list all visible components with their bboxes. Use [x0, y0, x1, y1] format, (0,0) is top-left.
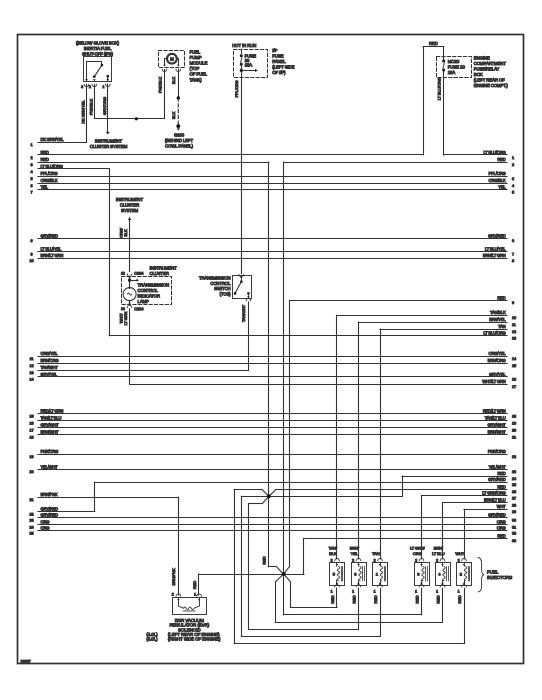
svg-text:FUEL: FUEL [487, 569, 499, 574]
svg-text:BLK: BLK [329, 551, 337, 556]
svg-text:BRN/ORG: BRN/ORG [488, 358, 506, 363]
svg-text:ENGINE: ENGINE [474, 56, 490, 61]
svg-text:TAN/WHT: TAN/WHT [41, 365, 59, 370]
svg-text:2: 2 [172, 593, 174, 597]
svg-text:18: 18 [29, 435, 33, 439]
svg-text:LT BLU/ORG: LT BLU/ORG [483, 331, 505, 336]
svg-text:(TOP: (TOP [190, 66, 200, 71]
svg-text:1: 1 [376, 572, 379, 577]
svg-text:11: 11 [30, 357, 34, 361]
svg-text:15A: 15A [245, 63, 253, 68]
svg-text:HOT IN RUN: HOT IN RUN [232, 43, 256, 48]
svg-text:20: 20 [29, 470, 33, 474]
svg-text:DK GRN/YEL: DK GRN/YEL [41, 137, 65, 142]
svg-text:18: 18 [512, 415, 516, 419]
svg-text:(TCS): (TCS) [220, 292, 232, 297]
svg-text:LT GRN/ORG: LT GRN/ORG [482, 491, 505, 496]
svg-text:RED: RED [497, 533, 505, 538]
svg-text:2: 2 [436, 558, 438, 562]
svg-text:1: 1 [512, 156, 514, 160]
svg-text:TANK): TANK) [190, 77, 203, 82]
svg-text:12: 12 [29, 364, 33, 368]
svg-text:BRN/ORG: BRN/ORG [41, 358, 59, 363]
svg-text:28: 28 [512, 503, 516, 507]
svg-text:DK GRN/YEL: DK GRN/YEL [81, 100, 86, 124]
svg-text:TAN/LT BLU: TAN/LT BLU [41, 416, 62, 421]
svg-text:24: 24 [512, 477, 516, 481]
svg-text:GRY/YEL: GRY/YEL [41, 372, 58, 377]
svg-text:29: 29 [512, 510, 516, 514]
svg-text:ENGINE COMPT.): ENGINE COMPT.) [474, 83, 509, 88]
svg-text:8: 8 [30, 239, 32, 243]
svg-text:12: 12 [121, 271, 125, 275]
svg-text:PANEL: PANEL [272, 59, 286, 64]
svg-text:BRN/WHT: BRN/WHT [488, 430, 507, 435]
svg-text:9: 9 [30, 252, 32, 256]
svg-text:ORG/BLK: ORG/BLK [41, 178, 58, 183]
svg-text:PPL/ORG: PPL/ORG [234, 80, 239, 97]
svg-text:1: 1 [436, 590, 438, 594]
svg-text:2: 2 [415, 558, 417, 562]
svg-text:INSTRUMENT: INSTRUMENT [116, 197, 144, 202]
svg-text:2: 2 [460, 572, 463, 577]
svg-text:LT GRN: LT GRN [123, 311, 128, 325]
svg-text:RED: RED [262, 556, 267, 564]
svg-text:(3.0L): (3.0L) [146, 637, 158, 642]
svg-text:PNK/BLK: PNK/BLK [88, 98, 93, 115]
svg-text:YEL/WHT: YEL/WHT [489, 464, 507, 469]
svg-text:7: 7 [512, 252, 514, 256]
svg-text:TAN/BLK: TAN/BLK [490, 310, 506, 315]
svg-text:LT GRN/: LT GRN/ [410, 546, 426, 551]
svg-text:BRN/: BRN/ [434, 546, 444, 551]
svg-text:1: 1 [102, 85, 104, 89]
svg-text:CLUSTER: CLUSTER [150, 271, 169, 276]
svg-text:ORG: ORG [41, 520, 50, 525]
svg-text:INSTRUMENT: INSTRUMENT [95, 139, 123, 144]
svg-text:31: 31 [512, 525, 516, 529]
svg-text:TAN/LT BLU: TAN/LT BLU [485, 416, 506, 421]
svg-text:LT BLU/ORG: LT BLU/ORG [41, 164, 63, 169]
svg-text:RED: RED [497, 157, 505, 162]
svg-text:M: M [170, 57, 174, 62]
svg-text:1: 1 [458, 590, 460, 594]
svg-text:YEL/WHT: YEL/WHT [41, 464, 59, 469]
svg-text:FUEL: FUEL [190, 50, 201, 55]
svg-text:25: 25 [29, 532, 33, 536]
svg-text:14: 14 [29, 378, 33, 382]
svg-text:OF FUEL: OF FUEL [190, 72, 208, 77]
svg-text:RED: RED [436, 595, 441, 603]
svg-text:RED: RED [415, 595, 420, 603]
svg-text:LT BLU: LT BLU [432, 551, 445, 556]
svg-text:2: 2 [89, 85, 91, 89]
svg-text:19: 19 [512, 422, 516, 426]
svg-text:MODULE: MODULE [190, 61, 208, 66]
svg-text:12: 12 [512, 330, 516, 334]
svg-text:14: 14 [512, 357, 516, 361]
svg-text:3: 3 [512, 177, 514, 181]
svg-text:(RIGHT SIDE OF ENGINE): (RIGHT SIDE OF ENGINE) [168, 637, 221, 642]
svg-text:COMPARTMENT: COMPARTMENT [474, 61, 507, 66]
svg-text:10: 10 [512, 316, 516, 320]
svg-text:RED: RED [497, 484, 505, 489]
svg-text:GRY/RED: GRY/RED [488, 477, 506, 482]
svg-text:RED: RED [352, 595, 357, 603]
svg-text:21: 21 [29, 498, 33, 502]
svg-text:15: 15 [512, 364, 516, 368]
svg-text:INDICATOR: INDICATOR [138, 294, 160, 299]
svg-text:LT BLU/ORG: LT BLU/ORG [483, 150, 505, 155]
svg-text:21: 21 [512, 435, 516, 439]
svg-text:11: 11 [512, 323, 516, 327]
svg-text:INERTIA FUEL: INERTIA FUEL [84, 46, 112, 51]
svg-text:3: 3 [81, 85, 83, 89]
svg-text:6: 6 [30, 184, 32, 188]
svg-text:GRY/WHT: GRY/WHT [488, 423, 507, 428]
svg-text:23: 23 [512, 470, 516, 474]
svg-text:MO23: MO23 [448, 59, 460, 64]
svg-text:LT BLU/YEL: LT BLU/YEL [485, 246, 506, 251]
svg-text:1: 1 [194, 593, 196, 597]
svg-text:2: 2 [352, 558, 354, 562]
svg-text:BOX: BOX [474, 72, 483, 77]
svg-text:GRY/RED: GRY/RED [41, 233, 59, 238]
svg-text:PNK/ORG: PNK/ORG [41, 449, 59, 454]
svg-text:29637: 29637 [21, 658, 32, 663]
svg-text:ORG: ORG [413, 551, 422, 556]
svg-text:4: 4 [438, 572, 441, 577]
svg-text:YEL: YEL [498, 185, 506, 190]
svg-text:COWL PANEL): COWL PANEL) [165, 144, 194, 149]
svg-text:1: 1 [415, 590, 417, 594]
svg-text:2: 2 [458, 558, 460, 562]
svg-text:RED: RED [373, 595, 378, 603]
svg-text:RED: RED [41, 150, 49, 155]
svg-text:BLK: BLK [171, 111, 176, 119]
svg-text:1: 1 [331, 590, 333, 594]
svg-text:ORG/YEL: ORG/YEL [41, 351, 59, 356]
svg-text:15A: 15A [448, 70, 456, 75]
svg-text:PPL/ORG: PPL/ORG [41, 171, 58, 176]
svg-text:2: 2 [331, 558, 333, 562]
svg-text:TRANSMISSION: TRANSMISSION [138, 282, 170, 287]
svg-text:4: 4 [30, 170, 32, 174]
svg-text:22: 22 [29, 512, 33, 516]
svg-text:20: 20 [512, 428, 516, 432]
svg-text:2: 2 [30, 156, 32, 160]
svg-text:BRN/WHT: BRN/WHT [41, 430, 60, 435]
svg-text:2: 2 [374, 558, 376, 562]
svg-text:ORG: ORG [41, 526, 50, 531]
svg-text:BLK: BLK [123, 229, 128, 237]
svg-text:LT BLU/YEL: LT BLU/YEL [41, 246, 62, 251]
svg-text:30: 30 [512, 519, 516, 523]
svg-text:25: 25 [512, 483, 516, 487]
svg-text:RED: RED [457, 595, 462, 603]
svg-text:INSTRUMENT: INSTRUMENT [150, 265, 178, 270]
svg-text:RED: RED [497, 471, 505, 476]
svg-text:26: 26 [512, 490, 516, 494]
svg-text:ORG: ORG [497, 520, 506, 525]
svg-text:PPL/ORG: PPL/ORG [489, 171, 506, 176]
svg-text:INJECTORS: INJECTORS [487, 575, 512, 580]
svg-text:RED: RED [192, 581, 197, 589]
svg-text:1: 1 [30, 143, 32, 147]
svg-text:BRN/YEL: BRN/YEL [489, 317, 506, 322]
svg-text:5: 5 [30, 177, 32, 181]
svg-text:G200: G200 [174, 133, 185, 138]
svg-text:BLK: BLK [171, 76, 176, 84]
svg-text:CLUSTER SYSTEM: CLUSTER SYSTEM [90, 144, 128, 149]
svg-text:32: 32 [512, 532, 516, 536]
svg-text:15: 15 [29, 415, 33, 419]
svg-text:16: 16 [121, 307, 125, 311]
svg-text:SYSTEM: SYSTEM [121, 208, 139, 213]
svg-text:CONTROL: CONTROL [210, 281, 231, 286]
svg-text:RED: RED [330, 595, 335, 603]
svg-text:3: 3 [354, 572, 357, 577]
svg-text:9: 9 [512, 301, 514, 305]
svg-text:TRANSMISSION: TRANSMISSION [199, 275, 231, 280]
svg-text:16: 16 [29, 422, 33, 426]
svg-text:SWITCH: SWITCH [214, 286, 230, 291]
svg-text:RED: RED [41, 157, 49, 162]
svg-text:YEL: YEL [41, 185, 49, 190]
svg-text:BRN/LT BLU: BRN/LT BLU [484, 497, 506, 502]
svg-text:ORG/YEL: ORG/YEL [489, 351, 507, 356]
svg-text:10: 10 [29, 259, 33, 263]
svg-text:LT BLU/ORG: LT BLU/ORG [436, 78, 441, 100]
svg-text:8: 8 [512, 259, 514, 263]
svg-text:BRN/PNK: BRN/PNK [41, 492, 58, 497]
svg-text:19: 19 [29, 455, 33, 459]
svg-text:(LEFT REAR OF: (LEFT REAR OF [474, 78, 505, 83]
svg-text:I/P: I/P [272, 48, 277, 53]
svg-text:RED: RED [429, 41, 438, 46]
svg-text:6: 6 [417, 572, 420, 577]
svg-text:GRY/RED: GRY/RED [488, 233, 506, 238]
svg-text:GRY/RED: GRY/RED [41, 506, 59, 511]
svg-text:PNK/ORG: PNK/ORG [488, 449, 506, 454]
svg-text:OF I/P): OF I/P) [272, 70, 286, 75]
svg-text:GRY/RED: GRY/RED [41, 513, 59, 518]
svg-text:33: 33 [512, 539, 516, 543]
svg-text:(BEHIND LEFT: (BEHIND LEFT [165, 138, 194, 143]
svg-text:23: 23 [29, 519, 33, 523]
svg-text:1: 1 [374, 590, 376, 594]
svg-text:PNK/BLK: PNK/BLK [157, 76, 162, 93]
svg-text:BRN/LT GRN: BRN/LT GRN [483, 253, 506, 258]
svg-text:WHT/LT GRN: WHT/LT GRN [482, 379, 506, 384]
svg-text:GRY/ORG: GRY/ORG [102, 97, 107, 115]
svg-text:LAMP: LAMP [138, 299, 150, 304]
svg-text:27: 27 [512, 497, 516, 501]
svg-text:YEL: YEL [351, 551, 359, 556]
svg-text:(LEFT SIDE: (LEFT SIDE [272, 65, 294, 70]
svg-text:FUSE 20: FUSE 20 [448, 64, 466, 69]
svg-text:WHT: WHT [497, 504, 506, 509]
svg-text:BRN/: BRN/ [350, 546, 360, 551]
svg-text:5: 5 [512, 191, 514, 195]
svg-text:TAN: TAN [498, 324, 506, 329]
svg-text:2: 2 [512, 163, 514, 167]
svg-text:1: 1 [352, 590, 354, 594]
svg-text:CLUSTER: CLUSTER [120, 202, 139, 207]
svg-text:22: 22 [512, 455, 516, 459]
svg-text:16: 16 [512, 378, 516, 382]
svg-text:CONTROL: CONTROL [138, 288, 159, 293]
svg-text:ORG: ORG [497, 526, 506, 531]
svg-text:17: 17 [512, 385, 516, 389]
svg-text:3: 3 [30, 163, 32, 167]
svg-text:BRN/LT GRN: BRN/LT GRN [41, 253, 64, 258]
svg-text:(BELOW GLOVE BOX): (BELOW GLOVE BOX) [76, 41, 120, 46]
svg-text:TAN/WHT: TAN/WHT [241, 304, 246, 322]
svg-text:GRY/WHT: GRY/WHT [41, 423, 60, 428]
svg-text:WHT: WHT [455, 551, 464, 556]
svg-text:17: 17 [29, 428, 33, 432]
svg-text:ORG/BLK: ORG/BLK [489, 178, 506, 183]
svg-text:FUSE: FUSE [272, 54, 283, 59]
svg-text:BRN/PNK: BRN/PNK [171, 568, 176, 586]
svg-text:PUMP: PUMP [190, 55, 202, 60]
svg-text:RED/LT GRN: RED/LT GRN [483, 409, 506, 414]
svg-text:RED: RED [497, 295, 505, 300]
svg-text:5: 5 [333, 572, 336, 577]
svg-text:SHUT-OFF (IFS): SHUT-OFF (IFS) [82, 52, 113, 57]
svg-text:6: 6 [512, 239, 514, 243]
svg-text:13: 13 [512, 337, 516, 341]
svg-text:TAN: TAN [372, 551, 380, 556]
svg-text:24: 24 [29, 525, 33, 529]
svg-text:TAN/: TAN/ [329, 546, 338, 551]
svg-text:13: 13 [29, 371, 33, 375]
svg-text:GRY/RED: GRY/RED [488, 513, 506, 518]
svg-text:7: 7 [30, 191, 32, 195]
svg-text:GRY/YEL: GRY/YEL [489, 372, 506, 377]
svg-text:RED/LT GRN: RED/LT GRN [41, 409, 64, 414]
svg-text:4: 4 [512, 184, 514, 188]
svg-text:FUSE/RELAY: FUSE/RELAY [474, 67, 500, 72]
